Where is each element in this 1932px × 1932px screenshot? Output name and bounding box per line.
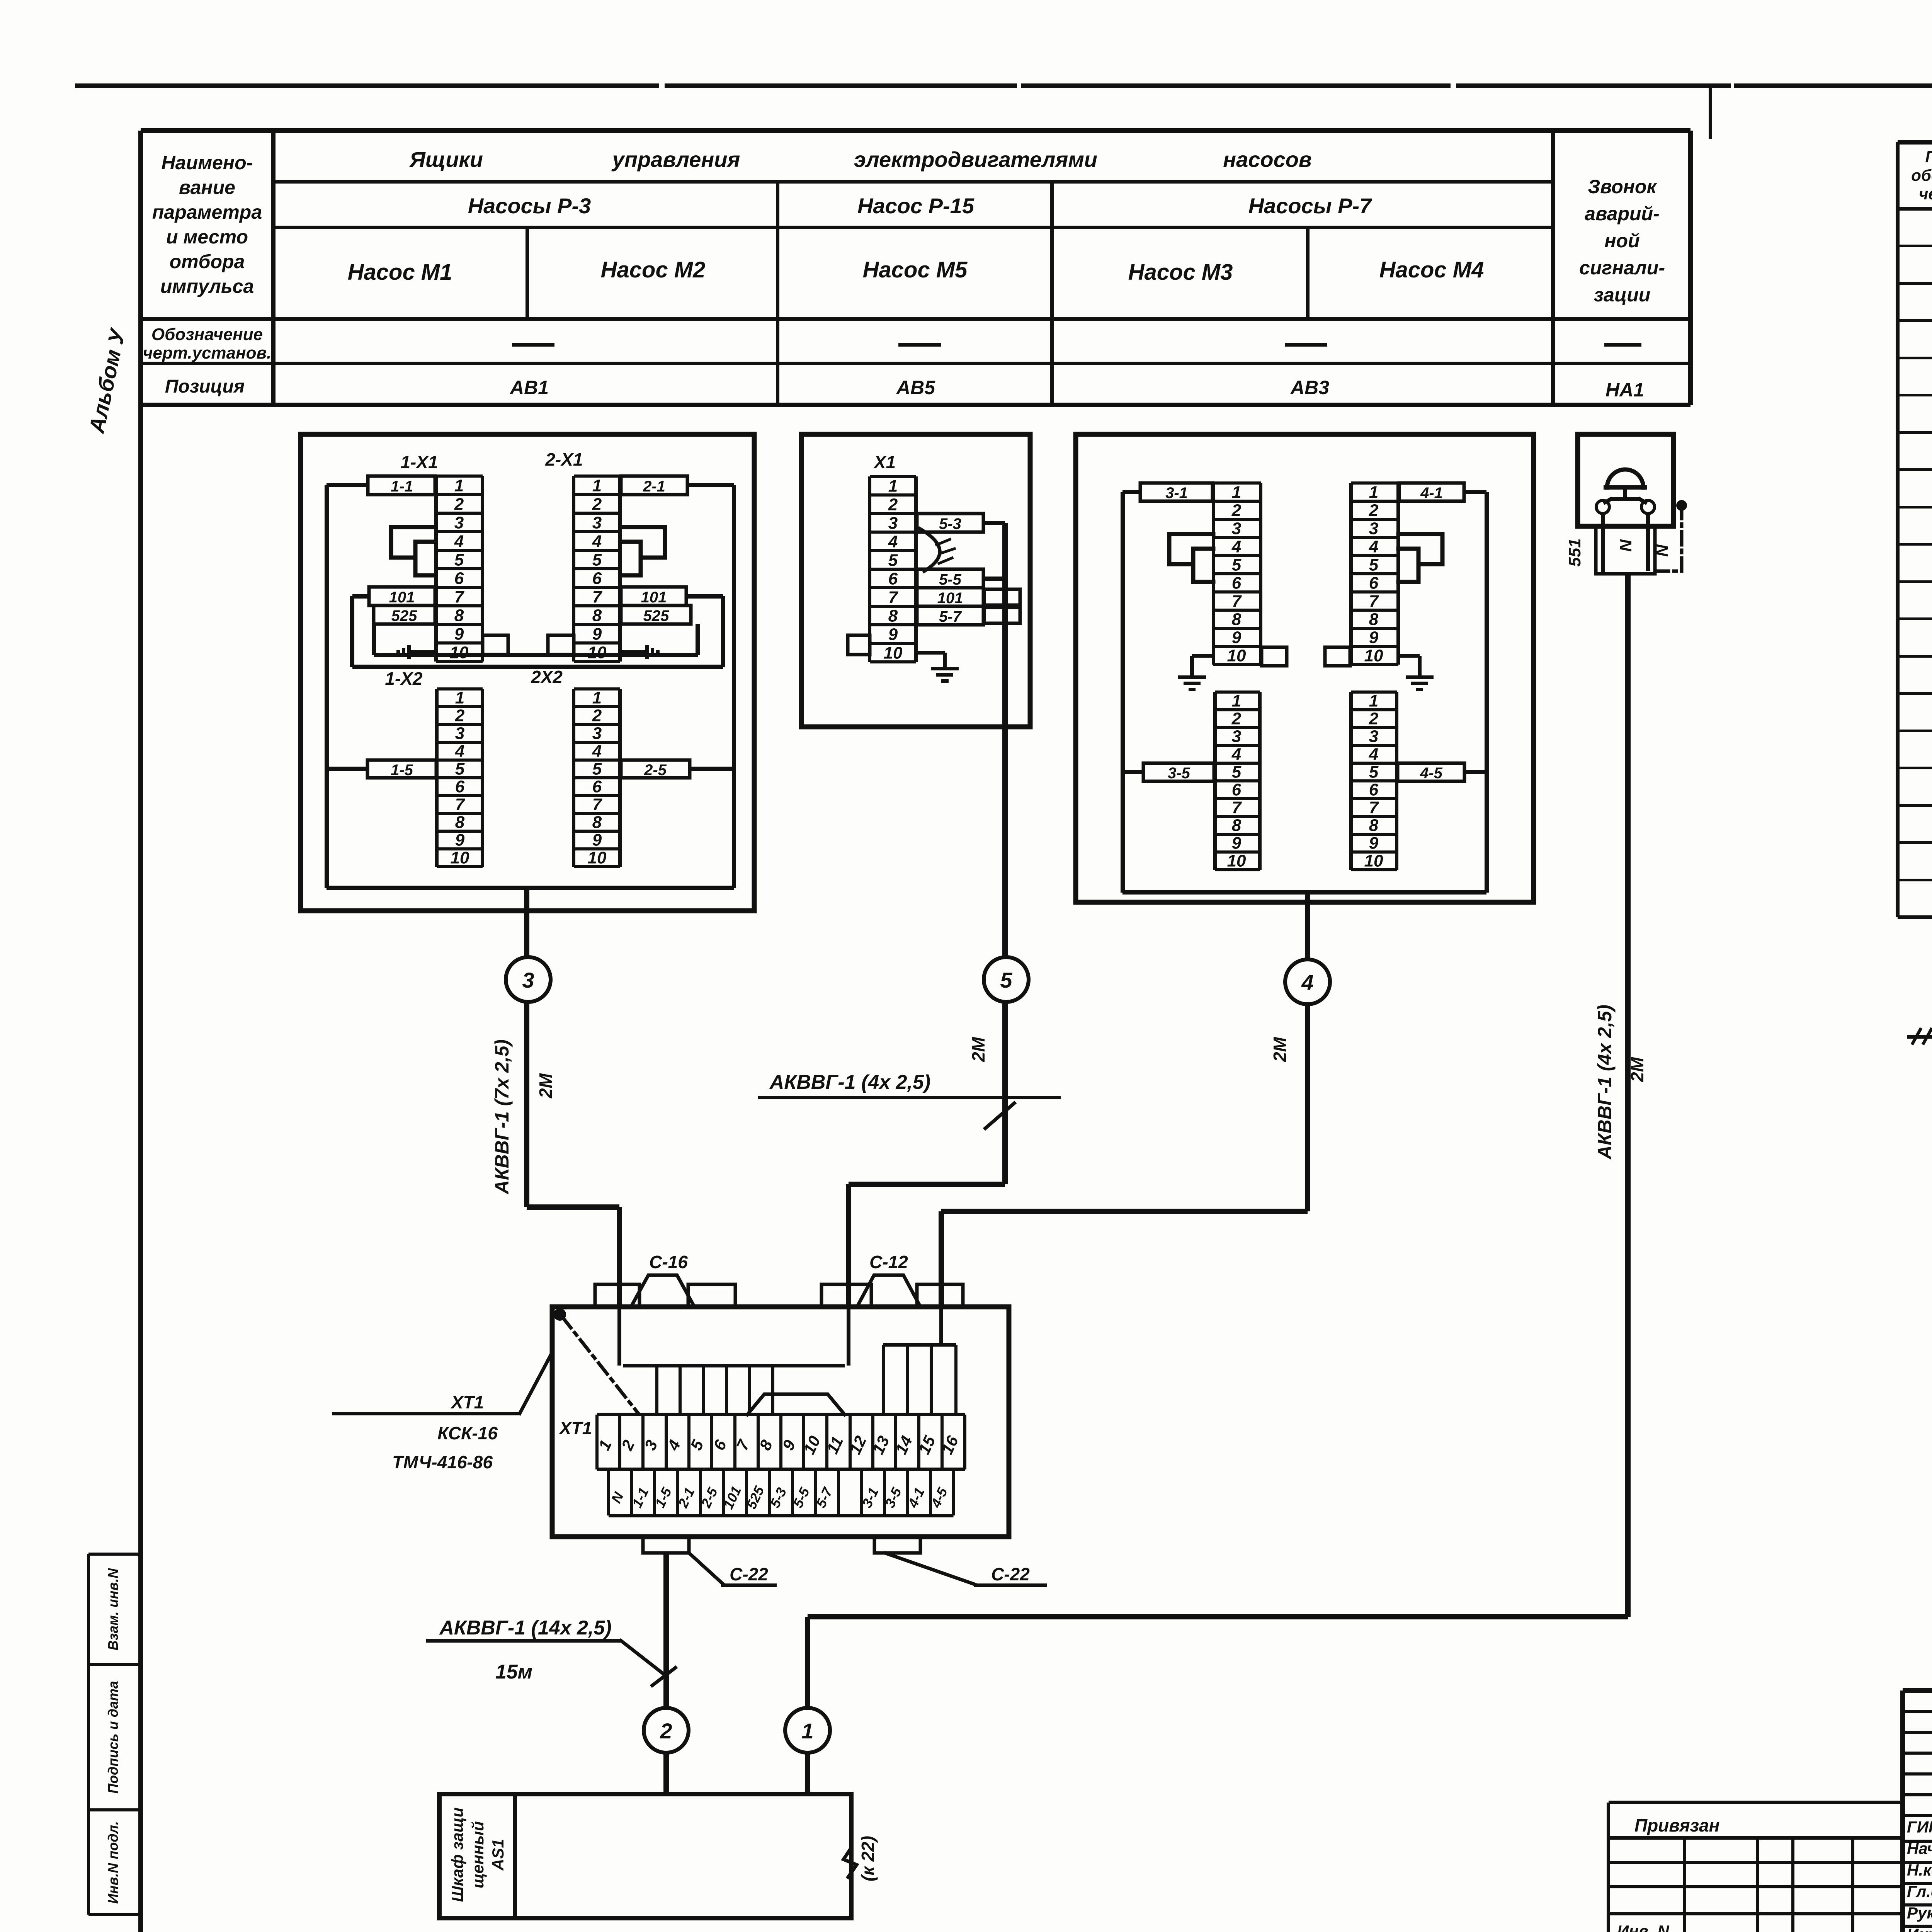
svg-text:1: 1 <box>1369 483 1378 502</box>
gland label С-22 left <box>689 1553 777 1587</box>
svg-text:АВ5: АВ5 <box>896 377 935 398</box>
jumper 2-Х1 rows4-6 <box>620 542 641 575</box>
cabinet АS1 enclosure <box>439 1794 851 1918</box>
tab right of 101 <box>984 589 1020 605</box>
group header Насосы Р-7 <box>1248 194 1372 218</box>
svg-text:7: 7 <box>888 588 899 607</box>
svg-text:АВ1: АВ1 <box>509 377 549 398</box>
wire cable 5 down <box>846 1002 1008 1307</box>
svg-text:9: 9 <box>1232 834 1242 853</box>
gland С-12 <box>857 1252 920 1307</box>
svg-text:1: 1 <box>1369 692 1378 711</box>
svg-text:Привязан: Привязан <box>1634 1815 1719 1835</box>
svg-text:101: 101 <box>389 589 415 606</box>
terminal block 2-Х1 <box>572 474 622 663</box>
callout ХТ1 КСК-16 ТМЧ-416-86 <box>332 1352 552 1472</box>
stamp label Подпись и дата <box>105 1681 121 1794</box>
box АВ5 enclosure <box>801 434 1030 727</box>
tag 101 right <box>621 587 686 606</box>
cable marker circle 1 <box>785 1708 830 1753</box>
stub Х1 left <box>848 635 870 655</box>
svg-text:2: 2 <box>1231 709 1242 728</box>
svg-text:1-1: 1-1 <box>391 478 413 495</box>
svg-text:Насосы Р-3: Насосы Р-3 <box>468 194 591 218</box>
svg-text:8: 8 <box>1369 610 1379 629</box>
cable marker circle 4 <box>1285 959 1330 1004</box>
svg-text:Звонок: Звонок <box>1588 176 1657 197</box>
svg-text:5: 5 <box>454 550 464 569</box>
svg-text:3: 3 <box>1369 727 1378 746</box>
dash-dot demolish line <box>1656 505 1682 571</box>
svg-text:АКВВГ-1 (14х 2,5): АКВВГ-1 (14х 2,5) <box>439 1617 611 1639</box>
svg-text:5: 5 <box>888 551 898 570</box>
svg-text:10: 10 <box>588 643 607 662</box>
svg-text:2М: 2М <box>1270 1036 1290 1062</box>
terminal block Х1 label <box>873 452 896 472</box>
svg-text:7: 7 <box>592 795 603 814</box>
column header Звонок аварийной сигнализации <box>1579 176 1665 306</box>
svg-text:7: 7 <box>1232 592 1242 611</box>
svg-text:4: 4 <box>888 532 898 551</box>
tab right of 5-7 <box>984 607 1020 623</box>
svg-text:9: 9 <box>1369 834 1379 853</box>
svg-text:10: 10 <box>1227 646 1246 665</box>
jumper 3-Х1 rows3-5 <box>1169 534 1213 564</box>
stub 1-Х1 <box>483 635 508 655</box>
svg-text:чение: чение <box>1919 185 1932 203</box>
terminal block 3-Х2 <box>1213 690 1262 871</box>
cable length 2М bell <box>1627 1056 1647 1082</box>
stub top 2 <box>688 1284 735 1307</box>
wire 5-3 to riser <box>983 521 1005 525</box>
tag 101 left <box>369 587 435 606</box>
header col label Позиция <box>165 376 245 397</box>
svg-text:1: 1 <box>454 476 464 495</box>
svg-text:3-1: 3-1 <box>1165 485 1188 502</box>
svg-text:параметра: параметра <box>152 201 262 223</box>
cabinet label Шкаф защищенный АS1 <box>448 1808 507 1902</box>
cable box 551 <box>1596 527 1655 574</box>
svg-text:10: 10 <box>450 643 469 662</box>
svg-text:6: 6 <box>455 777 465 796</box>
cable label АКВВГ-1 7х2,5 <box>491 1039 513 1195</box>
cable length 2М label circle4 <box>1270 1036 1290 1062</box>
svg-text:5: 5 <box>592 760 602 779</box>
cell Насос М3 <box>1128 260 1233 285</box>
cell Насос М1 <box>348 260 452 285</box>
svg-text:Насос М2: Насос М2 <box>601 257 706 282</box>
parts header Поз обозначение <box>1911 148 1932 203</box>
svg-text:5: 5 <box>1232 763 1242 782</box>
svg-text:9: 9 <box>1232 628 1242 647</box>
jumper 2-Х1 rows3-5 <box>620 527 665 558</box>
stub bottom 1 <box>643 1537 689 1553</box>
terminal strip ХТ1 labels row <box>607 1469 955 1517</box>
svg-text:зации: зации <box>1594 284 1651 306</box>
svg-text:3: 3 <box>454 513 464 532</box>
svg-text:Насос Р-15: Насос Р-15 <box>857 194 975 218</box>
stub 4-Х1 <box>1325 647 1350 666</box>
stub 3-Х1 <box>1262 647 1287 666</box>
svg-text:8: 8 <box>1232 816 1242 835</box>
svg-text:525: 525 <box>391 607 417 624</box>
wire cross link 525 <box>372 624 700 657</box>
svg-text:Нач.отд.: Нач.отд. <box>1907 1839 1932 1857</box>
svg-text:4: 4 <box>1369 745 1378 764</box>
svg-text:электродвигателями: электродвигателями <box>854 147 1097 172</box>
wire long horizontal to bell cable <box>808 1614 1628 1619</box>
ground 3-Х1 <box>1178 654 1213 691</box>
dash-dot diagonal ХТ1 <box>562 1317 638 1413</box>
svg-text:АКВВГ-1 (4х 2,5): АКВВГ-1 (4х 2,5) <box>769 1071 930 1094</box>
wire bus right АВ3 <box>1464 490 1489 893</box>
svg-text:7: 7 <box>1232 798 1242 817</box>
frame nub above header table <box>1709 87 1712 139</box>
tag 1-1 <box>368 476 435 495</box>
table title Ящики управления электродвигателями насосов <box>409 147 1312 172</box>
stub top 1 <box>595 1284 639 1307</box>
wire bus left АВ1 <box>325 483 368 888</box>
bundle arc Х1 <box>920 529 954 571</box>
terminal block 1-Х2 label <box>385 668 423 689</box>
album label <box>84 325 130 435</box>
svg-text:4: 4 <box>1301 970 1313 995</box>
svg-text:обозна-: обозна- <box>1911 166 1932 184</box>
svg-text:АКВВГ-1 (4х 2,5): АКВВГ-1 (4х 2,5) <box>1594 1005 1616 1160</box>
svg-text:101: 101 <box>937 590 963 607</box>
svg-text:2-1: 2-1 <box>643 478 665 495</box>
svg-text:4: 4 <box>454 532 464 551</box>
svg-text:15м: 15м <box>495 1661 532 1683</box>
svg-text:1: 1 <box>1232 692 1241 711</box>
wire bus bottom АВ3 <box>1122 890 1486 895</box>
svg-text:Инженер: Инженер <box>1907 1925 1932 1932</box>
cable marker circle 3 <box>506 957 551 1002</box>
position АВ5 <box>896 377 935 398</box>
terminal block 2Х2 label <box>531 667 563 687</box>
bell box НА1 enclosure <box>1578 434 1673 526</box>
terminal block 4-Х2 <box>1349 690 1398 871</box>
svg-text:2Х2: 2Х2 <box>531 667 563 687</box>
svg-text:1-5: 1-5 <box>391 762 413 779</box>
terminal block 1-Х2 <box>435 687 484 868</box>
cable length 2М label circle5 <box>968 1036 988 1062</box>
frame left border <box>138 131 143 1932</box>
svg-text:2: 2 <box>592 706 602 725</box>
wire bell left lead <box>1601 513 1605 574</box>
svg-text:10: 10 <box>588 849 607 867</box>
legend demolish hatch <box>1907 1029 1932 1043</box>
svg-text:отбора: отбора <box>170 251 245 272</box>
svg-text:8: 8 <box>455 813 465 832</box>
svg-text:5-7: 5-7 <box>939 608 962 625</box>
svg-text:аварий-: аварий- <box>1585 203 1659 224</box>
risers group 1 <box>617 1307 850 1415</box>
frame top border line <box>77 83 1932 88</box>
svg-text:7: 7 <box>1369 798 1379 817</box>
svg-text:2: 2 <box>1369 709 1379 728</box>
svg-text:6: 6 <box>592 777 602 796</box>
wire to circle 1 <box>805 1617 810 1708</box>
svg-text:Насос М1: Насос М1 <box>348 260 452 285</box>
box АВ1 enclosure <box>301 434 754 911</box>
svg-text:7: 7 <box>1369 592 1379 611</box>
stamp label Взам. инв.N <box>105 1568 121 1651</box>
wire АВ5 exit riser <box>1002 523 1008 957</box>
svg-text:насосов: насосов <box>1223 147 1312 172</box>
jumper 4-Х1 rows4-6 <box>1398 549 1418 582</box>
jumper 4-Х1 rows3-5 <box>1398 534 1442 564</box>
svg-text:5-5: 5-5 <box>939 571 962 588</box>
svg-text:7: 7 <box>592 587 603 606</box>
svg-text:4: 4 <box>1231 537 1241 556</box>
tag 2-5 <box>621 760 690 779</box>
gland С-16 <box>631 1252 694 1307</box>
svg-text:5: 5 <box>1000 968 1012 992</box>
wire bus right АВ1 <box>687 483 736 888</box>
binding table grid <box>1607 1801 1903 1932</box>
ground 4-Х1 <box>1398 654 1434 691</box>
tag 3-5 <box>1143 763 1214 782</box>
stub top 4 <box>917 1284 963 1307</box>
tag 5-3 <box>917 514 983 532</box>
terminal block 2Х2 <box>572 687 622 868</box>
svg-text:7: 7 <box>455 795 466 814</box>
wire cable 3 down <box>524 1002 622 1307</box>
svg-text:3: 3 <box>522 968 534 992</box>
svg-text:9: 9 <box>888 625 898 644</box>
svg-text:3: 3 <box>888 514 898 532</box>
cell Насос М5 <box>863 257 968 282</box>
svg-text:8: 8 <box>592 813 602 832</box>
svg-text:С-16: С-16 <box>649 1252 688 1272</box>
svg-text:8: 8 <box>888 606 898 625</box>
svg-text:5: 5 <box>455 760 465 779</box>
svg-text:6: 6 <box>1369 781 1379 799</box>
svg-text:импульса: импульса <box>160 276 254 297</box>
stamp label Инв.N подл. <box>105 1821 121 1904</box>
svg-text:10: 10 <box>1364 646 1383 665</box>
svg-text:4: 4 <box>1369 537 1378 556</box>
header col label Обозначение черт.установ. <box>143 325 272 362</box>
svg-text:101: 101 <box>641 589 667 606</box>
svg-text:С-22: С-22 <box>730 1564 768 1584</box>
tag 101 Х1 <box>917 588 983 607</box>
position НА1 <box>1605 379 1644 401</box>
bell symbol <box>1596 469 1655 514</box>
svg-text:10: 10 <box>451 849 469 867</box>
junction dot bell <box>1676 500 1687 511</box>
svg-text:Насос М4: Насос М4 <box>1379 257 1484 282</box>
position АВ1 <box>509 377 549 398</box>
svg-text:10: 10 <box>884 643 903 662</box>
label Привязан <box>1634 1815 1719 1835</box>
svg-text:5: 5 <box>1369 763 1379 782</box>
break symbol к 22 <box>844 1836 878 1881</box>
svg-text:9: 9 <box>454 624 464 643</box>
svg-text:9: 9 <box>592 831 602 850</box>
svg-text:5: 5 <box>1369 556 1379 575</box>
terminal block 1-Х1 <box>434 474 484 663</box>
svg-text:сигнали-: сигнали- <box>1579 257 1665 279</box>
wire mark N outside <box>1653 544 1672 557</box>
svg-text:С-12: С-12 <box>869 1252 908 1272</box>
ground 2-Х1 <box>620 645 660 659</box>
svg-text:Н.контр.: Н.контр. <box>1907 1861 1932 1879</box>
cable label АКВВГ-1 4х2,5 bell <box>1594 1005 1616 1160</box>
label Инв N <box>1617 1922 1670 1932</box>
risers group 2 <box>882 1307 957 1415</box>
tag 4-1 <box>1399 483 1464 502</box>
cell Насос М2 <box>601 257 706 282</box>
wire bell cable down <box>1625 574 1631 1617</box>
tag 5-7 <box>917 606 983 625</box>
svg-text:3: 3 <box>592 724 602 743</box>
svg-text:ХТ1: ХТ1 <box>558 1418 592 1438</box>
tag 3-1 <box>1140 483 1213 502</box>
svg-text:8: 8 <box>454 606 464 625</box>
tag 2-1 <box>621 476 687 495</box>
svg-text:(к 22): (к 22) <box>858 1836 878 1881</box>
svg-text:ГИП: ГИП <box>1907 1818 1932 1836</box>
svg-text:8: 8 <box>1369 816 1379 835</box>
svg-text:ной: ной <box>1604 230 1639 252</box>
svg-text:1: 1 <box>455 689 464 707</box>
dash row marks <box>512 343 1641 347</box>
terminal block 3-Х1 <box>1212 481 1262 666</box>
svg-text:3: 3 <box>592 513 602 532</box>
svg-text:ТМЧ-416-86: ТМЧ-416-86 <box>392 1452 493 1472</box>
ground Х1 <box>916 651 959 683</box>
ground 1-Х1 <box>396 645 436 659</box>
svg-text:управления: управления <box>611 147 740 172</box>
svg-text:АS1: АS1 <box>489 1839 507 1871</box>
box АВ3 enclosure <box>1076 434 1534 902</box>
tag 525 left <box>374 605 435 624</box>
svg-text:АКВВГ-1 (7х 2,5): АКВВГ-1 (7х 2,5) <box>491 1039 513 1195</box>
svg-text:Ящики: Ящики <box>409 147 483 172</box>
svg-text:2: 2 <box>1231 501 1242 520</box>
label ХТ1 inside <box>558 1418 592 1438</box>
wire АВ1 exit <box>524 888 529 957</box>
wire bell right lead <box>1646 513 1650 571</box>
cable label АКВВГ-1 4х2,5 horizontal <box>758 1071 1061 1128</box>
header col label Наименование параметра <box>152 152 262 297</box>
svg-text:N: N <box>1616 539 1635 552</box>
svg-text:6: 6 <box>454 569 464 588</box>
wire to circle 2 <box>663 1553 669 1708</box>
svg-text:10: 10 <box>1227 852 1246 871</box>
svg-text:НА1: НА1 <box>1605 379 1644 401</box>
svg-text:2-5: 2-5 <box>644 762 667 779</box>
svg-text:Поз.: Поз. <box>1925 148 1932 166</box>
svg-text:Инв. N: Инв. N <box>1617 1922 1670 1932</box>
svg-text:6: 6 <box>1232 781 1242 799</box>
svg-text:4-5: 4-5 <box>1420 765 1443 782</box>
svg-text:1: 1 <box>801 1719 813 1743</box>
svg-text:4-1: 4-1 <box>1420 485 1443 502</box>
svg-text:и место: и место <box>166 226 248 248</box>
svg-text:9: 9 <box>455 831 465 850</box>
svg-text:3: 3 <box>455 724 464 743</box>
risers bridge <box>747 1394 845 1415</box>
svg-text:Насос М3: Насос М3 <box>1128 260 1233 285</box>
terminal block 2-Х1 label <box>545 449 583 469</box>
svg-text:Шкаф защи: Шкаф защи <box>448 1808 466 1902</box>
svg-text:1: 1 <box>592 689 602 707</box>
wire bus bottom АВ1 <box>327 886 734 890</box>
svg-text:Рук.гр.: Рук.гр. <box>1907 1904 1932 1922</box>
jumper 1-Х1 rows4-6 <box>415 542 436 575</box>
svg-text:1-Х1: 1-Х1 <box>400 452 438 472</box>
svg-text:3: 3 <box>1369 519 1378 538</box>
cell Насос М4 <box>1379 257 1484 282</box>
svg-text:2: 2 <box>888 495 898 514</box>
svg-text:С-22: С-22 <box>991 1564 1030 1584</box>
stub bottom 2 <box>874 1537 920 1553</box>
svg-text:2: 2 <box>660 1719 672 1743</box>
svg-text:8: 8 <box>592 606 602 625</box>
svg-text:1: 1 <box>888 476 898 495</box>
svg-text:6: 6 <box>888 569 898 588</box>
stub top 3 <box>821 1284 871 1307</box>
svg-text:черт.установ.: черт.установ. <box>143 344 272 362</box>
svg-text:N: N <box>1653 544 1672 557</box>
tag 525 right <box>621 605 691 624</box>
svg-text:10: 10 <box>1364 852 1383 871</box>
svg-text:АВ3: АВ3 <box>1290 377 1329 398</box>
svg-text:1: 1 <box>1232 483 1241 502</box>
svg-text:вание: вание <box>179 177 235 198</box>
wire circle 1 to cabinet <box>805 1753 810 1794</box>
svg-text:Х1: Х1 <box>873 452 896 472</box>
svg-text:4: 4 <box>455 742 464 761</box>
wire circle 2 to cabinet <box>663 1753 669 1794</box>
terminal block Х1 <box>868 475 918 663</box>
svg-text:2: 2 <box>1369 501 1379 520</box>
svg-text:КСК-16: КСК-16 <box>437 1423 498 1443</box>
jumper 1-Х1 rows3-5 <box>391 527 436 558</box>
svg-text:Гл.спеч: Гл.спеч <box>1907 1882 1932 1900</box>
group header Насосы Р-3 <box>468 194 591 218</box>
svg-text:4: 4 <box>1231 745 1241 764</box>
cable length 2М label <box>536 1073 556 1099</box>
jumper 3-Х1 rows4-6 <box>1193 549 1213 582</box>
svg-text:3: 3 <box>1232 727 1241 746</box>
svg-text:525: 525 <box>643 607 669 624</box>
terminal strip ХТ1 numbers row <box>595 1413 966 1471</box>
svg-text:2М: 2М <box>536 1073 556 1099</box>
svg-text:6: 6 <box>1232 574 1242 593</box>
wire mark N inside <box>1616 539 1635 552</box>
cable marker circle 5 <box>984 957 1029 1002</box>
svg-text:7: 7 <box>454 587 465 606</box>
wire cable 4 down <box>939 1004 1310 1307</box>
svg-text:1: 1 <box>592 476 602 495</box>
wire cross link 101 <box>350 594 725 669</box>
svg-text:2: 2 <box>455 706 465 725</box>
svg-text:8: 8 <box>1232 610 1242 629</box>
left stamp column cells <box>87 1553 141 1916</box>
tag 1-5 <box>367 760 436 779</box>
parts table grid <box>1896 140 1932 919</box>
junction box ХТ1 enclosure <box>552 1307 1009 1537</box>
svg-text:Взам. инв.N: Взам. инв.N <box>105 1568 121 1651</box>
position АВ3 <box>1290 377 1329 398</box>
cable label АКВВГ-1 14х2,5 15м <box>426 1617 675 1685</box>
cable marker circle 2 <box>644 1708 689 1753</box>
svg-text:4: 4 <box>592 532 602 551</box>
